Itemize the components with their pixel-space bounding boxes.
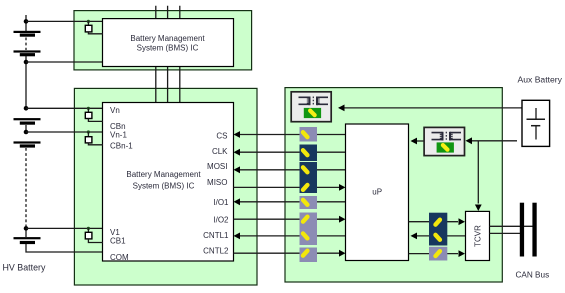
battery cell B5 short plate: [20, 241, 35, 244]
dashed wire between cells: [25, 38, 27, 51]
node dot N4: [24, 130, 29, 135]
svg-text:V1: V1: [110, 228, 120, 237]
module1 filter stub wire: [87, 21, 89, 25]
BMS module 1 green block: [74, 11, 252, 70]
isolated supply icon A: [291, 92, 331, 122]
BMS IC 2 white box: [103, 103, 234, 262]
SPI wire MISO: [234, 186, 340, 188]
wire CNTL1: [240, 235, 346, 237]
SPI wire CLK: [240, 151, 346, 153]
svg-text:CBn-1: CBn-1: [110, 141, 133, 150]
battery cell B5 long plate: [14, 237, 41, 239]
wire N2 to BMS1 bottom: [26, 61, 103, 63]
arrow into TCVR line3: [459, 250, 466, 257]
svg-text:MOSI: MOSI: [207, 162, 227, 171]
SPI wire MOSI: [240, 169, 346, 171]
wire uP to TCVR line1: [409, 221, 459, 223]
battery cell B3 long plate: [14, 118, 41, 120]
arrow CNTL1 into BMS: [234, 233, 241, 240]
daisy-chain stub wires above module 1: [156, 6, 180, 19]
node dot N5: [24, 226, 29, 231]
CAN isolator grey: [429, 247, 447, 261]
HV battery stack vertical wire (top segment): [25, 15, 27, 31]
wire TCVR to CAN bus high: [490, 225, 535, 227]
module2 filter3 stub: [87, 228, 89, 232]
digital isolator CS: [300, 127, 318, 142]
svg-text:Battery Management: Battery Management: [130, 34, 205, 43]
module2 filter1 output wire CBn: [88, 119, 103, 122]
battery cell B1 short plate: [20, 34, 35, 37]
wire I/O1: [240, 201, 346, 203]
svg-text:MISO: MISO: [207, 178, 227, 187]
wire aux to supply icon B: [467, 140, 517, 142]
digital isolator I/O2: [300, 213, 318, 229]
svg-text:COM: COM: [110, 253, 129, 262]
wire N1 to BMS1 Vtop: [26, 20, 103, 22]
arrow I/O2 into uP: [339, 216, 346, 223]
battery cell B2 long plate: [14, 50, 41, 52]
node dot N3: [24, 106, 29, 111]
controller green block: [285, 88, 502, 282]
isolated supply icon B: [424, 127, 464, 155]
svg-text:CAN Bus: CAN Bus: [516, 271, 550, 280]
module1 filter output wire: [88, 32, 103, 34]
battery cell B2 short plate: [20, 53, 35, 56]
arrow I/O1 into BMS: [234, 198, 241, 205]
module2 filter2 junction dot: [87, 130, 90, 133]
wire supply icon B to uP: [412, 140, 424, 142]
svg-text:CB1: CB1: [110, 237, 126, 246]
arrow into TCVR line1: [459, 218, 466, 225]
battery cell B4 short plate: [20, 144, 35, 147]
svg-text:Battery Management: Battery Management: [126, 170, 201, 179]
svg-text:Aux Battery: Aux Battery: [518, 74, 563, 84]
Aux battery symbol: [527, 108, 546, 140]
node dot N2: [24, 60, 29, 65]
digital isolator MOSI: [300, 162, 318, 178]
svg-text:CS: CS: [216, 132, 227, 141]
digital isolator MISO: [300, 178, 318, 194]
arrow CS into BMS: [234, 131, 241, 138]
wire TCVR to CAN bus low: [490, 232, 523, 234]
wire aux to supply icon A: [339, 107, 522, 109]
svg-text:Vn: Vn: [110, 106, 120, 115]
arrow CLK into BMS: [234, 149, 241, 156]
battery cell B3 short plate: [20, 122, 35, 125]
wire battery bottom to COM: [26, 244, 103, 252]
svg-text:uP: uP: [372, 187, 382, 196]
arrow MOSI into BMS: [234, 166, 241, 173]
wire battery to node2: [25, 56, 27, 108]
battery cell B1 long plate: [14, 31, 41, 33]
vertical supply wire down to TCVR: [477, 141, 479, 204]
wire N4 Vn-1: [26, 131, 103, 133]
digital isolator I/O1: [300, 196, 318, 209]
arrow CNTL2 into uP: [339, 250, 346, 257]
svg-text:System (BMS) IC: System (BMS) IC: [133, 182, 195, 191]
arrow into uP from icon B: [411, 138, 418, 145]
wire CNTL2: [234, 252, 340, 254]
wire I/O2: [234, 218, 340, 220]
microprocessor uP box: [346, 124, 409, 261]
module2 filter2 stub: [87, 132, 89, 137]
CAN bus bar 1: [520, 203, 524, 257]
module2 filter1 junction dot: [87, 107, 90, 110]
svg-text:I/O2: I/O2: [213, 215, 229, 224]
module2 filter2 output wire CBn-1: [88, 143, 103, 145]
module2 filter1 stub: [87, 108, 89, 112]
svg-text:System (BMS) IC: System (BMS) IC: [137, 44, 199, 53]
BMS IC 1 white box: [103, 19, 234, 67]
arrow into supply icon A: [338, 105, 345, 112]
battery cell B4 long plate: [14, 141, 41, 143]
SPI wire CS: [240, 134, 346, 136]
wire node3 to node4: [25, 125, 27, 132]
module2 filter3 output wire CB1: [88, 239, 103, 243]
svg-text:CNTL1: CNTL1: [203, 231, 229, 240]
svg-text:CLK: CLK: [212, 147, 228, 156]
svg-text:CNTL2: CNTL2: [203, 246, 229, 255]
wire TCVR to uP line2: [412, 235, 466, 237]
svg-text:I/O1: I/O1: [213, 198, 229, 207]
arrow into supply icon B: [466, 137, 473, 144]
svg-text:Vn-1: Vn-1: [110, 130, 127, 139]
arrow MISO into uP: [339, 184, 346, 191]
module2 filter1 square: [85, 112, 92, 118]
module1 filter square: [85, 25, 92, 32]
CAN bus bar 2: [532, 203, 536, 257]
module1 filter stub junction dot: [87, 20, 90, 23]
module2 filter3 junction dot: [87, 227, 90, 230]
node dot N1: [24, 19, 29, 24]
digital isolator CLK: [300, 145, 318, 162]
wire uP to TCVR line3: [409, 253, 459, 255]
module2 filter2 square: [85, 137, 92, 143]
daisy-chain wires module1 to module2: [156, 67, 180, 103]
CAN transceiver TCVR box: [466, 211, 490, 260]
svg-text:HV Battery: HV Battery: [3, 263, 46, 273]
digital isolator CNTL2: [300, 248, 318, 263]
arrow down into TCVR: [475, 205, 482, 212]
module2 filter3 square: [85, 232, 92, 239]
wire N5 V1: [26, 227, 103, 229]
arrow into uP line2: [411, 233, 418, 240]
svg-text:TCVR: TCVR: [474, 225, 483, 247]
BMS module 2 green block: [74, 88, 257, 285]
wire N3 Vn: [26, 107, 103, 109]
CAN isolator navy: [429, 213, 447, 246]
Aux battery box: [522, 100, 550, 146]
wire to node5: [25, 226, 27, 237]
dashed wire mid stack: [25, 148, 27, 226]
digital isolator CNTL1: [300, 229, 318, 246]
